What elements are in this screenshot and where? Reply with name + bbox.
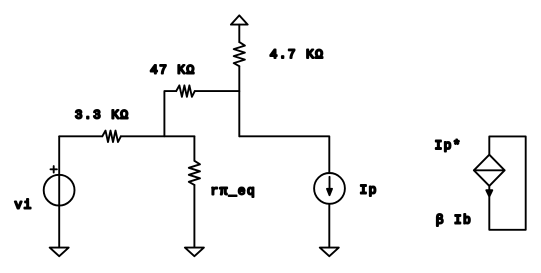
wire Ip bottom lead [328, 204, 330, 248]
wire base node line right [121, 135, 194, 137]
ground Ip [320, 248, 339, 257]
wire rpi bottom lead [193, 185, 195, 248]
resistor 47K [176, 85, 195, 96]
svg-text:β Ib: β Ib [436, 213, 472, 228]
current source Ip [314, 173, 345, 204]
wire 47K right lead [195, 90, 240, 92]
svg-text:3.3 KΩ: 3.3 KΩ [75, 107, 130, 122]
wire collector to Ip [239, 136, 329, 173]
wire base node line left [59, 135, 102, 137]
svg-text:4.7 KΩ: 4.7 KΩ [270, 47, 325, 62]
wire 47K left lead down to node [164, 91, 176, 136]
dependent current source Ip* [474, 155, 505, 197]
voltage source Vi [44, 166, 75, 206]
ground Vi [50, 248, 69, 257]
wire feedback loop [489, 136, 525, 229]
resistor 3.3K [102, 131, 121, 142]
svg-text:Ip*: Ip* [435, 138, 462, 153]
resistor 4.7K [234, 42, 245, 66]
wire rpi top lead [193, 136, 195, 161]
resistor rπ_eq [189, 161, 200, 185]
svg-text:Ip: Ip [360, 182, 378, 197]
wire collector vertical [238, 66, 240, 136]
svg-text:rπ_eq: rπ_eq [211, 184, 257, 199]
wire Vi branch [58, 136, 60, 247]
power supply symbol VCC [231, 15, 248, 42]
svg-text:47 KΩ: 47 KΩ [150, 63, 196, 78]
svg-text:vi: vi [14, 198, 32, 213]
ground rpi [185, 248, 204, 257]
